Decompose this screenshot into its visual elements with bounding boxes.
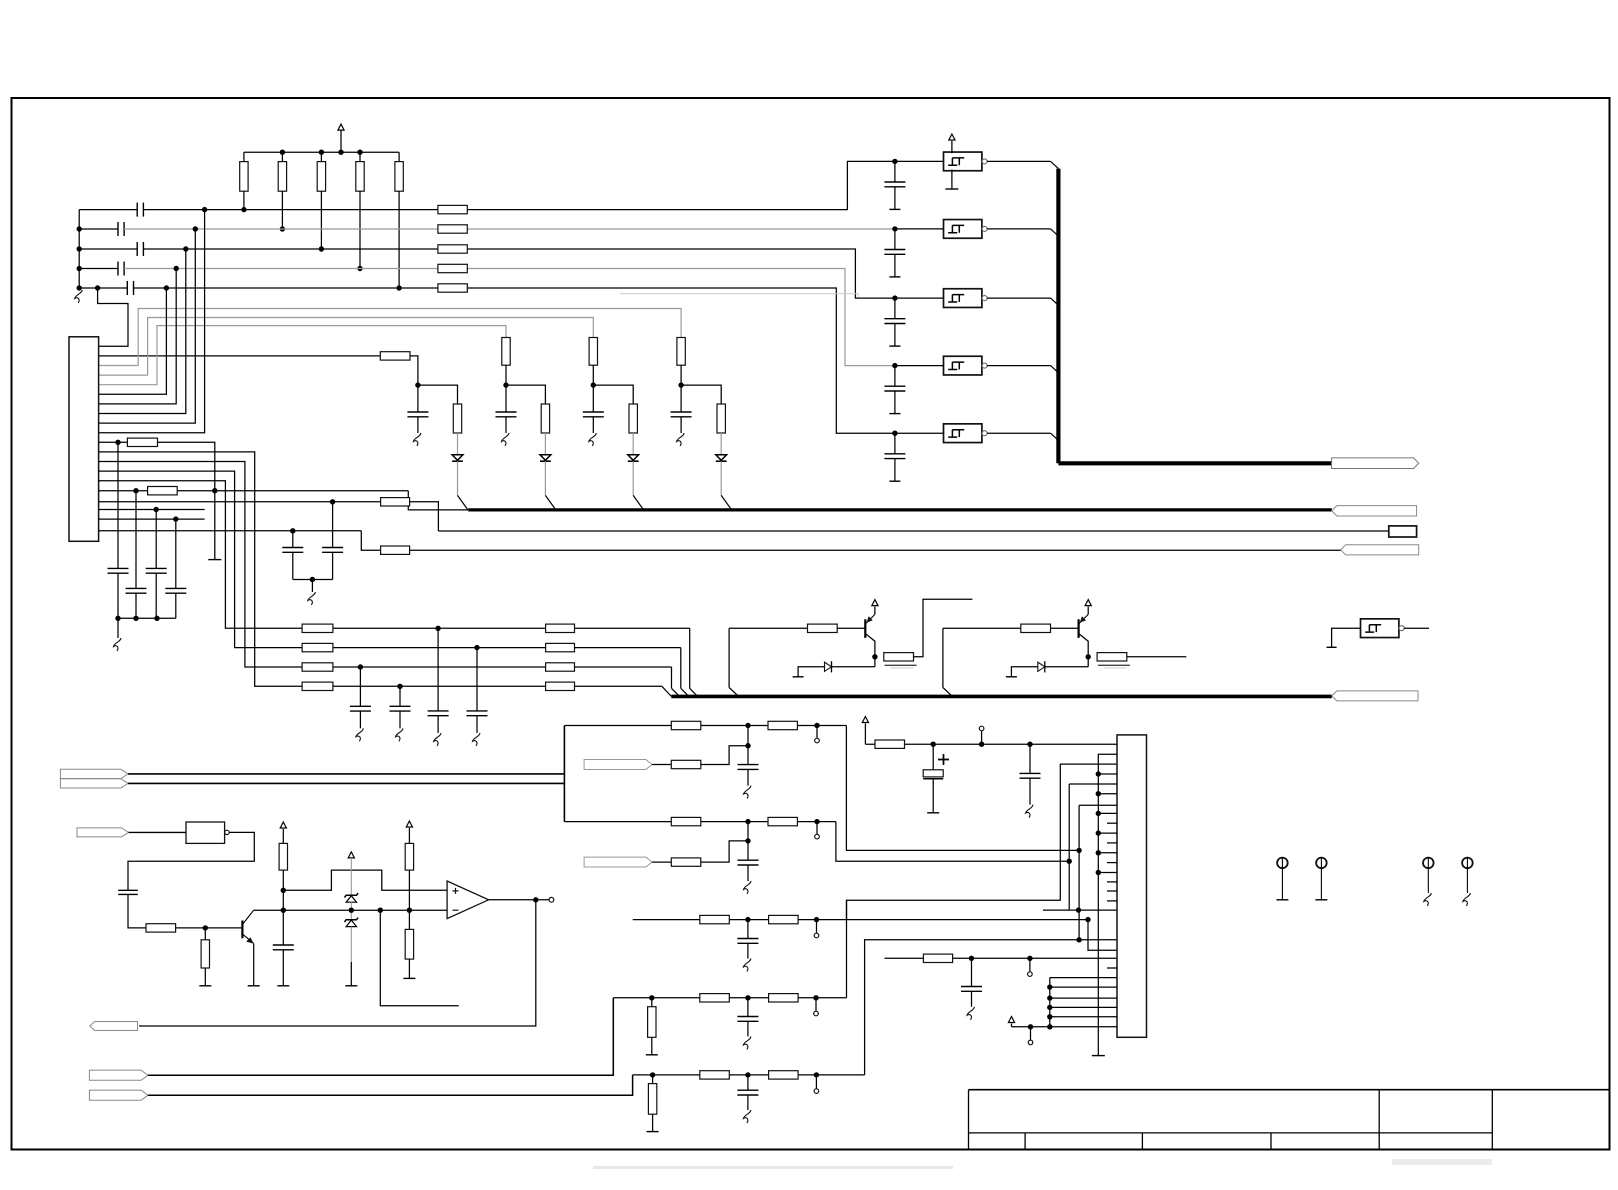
wire minus line [351, 909, 447, 911]
net label box [1389, 526, 1417, 537]
capacitor CS5 schmitt input [894, 433, 896, 454]
wire label line long [438, 530, 1388, 532]
wire branch4 to diode column [681, 385, 721, 404]
wire J2 group top [1050, 977, 1117, 979]
node branch3 [591, 382, 596, 387]
capacitor CR3 row3 [359, 667, 361, 706]
bus connector arrow right mid [1332, 506, 1417, 516]
resistor RA2 [768, 721, 797, 729]
bus entry branch4 [721, 495, 731, 510]
resistor RD3 column [629, 404, 637, 433]
wire J2 bottom rail [1011, 1024, 1013, 1027]
wire power rail [865, 743, 1117, 745]
wire J2 gnd stub [1098, 812, 1117, 814]
wire IN2a to rowD [148, 998, 613, 1075]
capacitor CC2 column [135, 491, 137, 589]
node line2 drop junction [193, 226, 198, 231]
diode DQ1 [825, 662, 832, 671]
node line3 drop junction [183, 246, 188, 251]
wire pin14 to row1 [99, 481, 303, 629]
ground bar CS2 [889, 276, 900, 278]
wire diode2 to bus [544, 461, 546, 495]
wire J2 stub g [1107, 900, 1117, 902]
title block [969, 1089, 1610, 1091]
wire pin5 up to line5 [99, 288, 167, 394]
wire row3 drop [671, 667, 673, 688]
wire schmitt3 input [895, 297, 944, 299]
wire J2 gnd stub [1098, 793, 1117, 795]
bus entry schmitt3 [1051, 298, 1059, 305]
wire RO1 to base node [176, 927, 243, 929]
node rail elcap [931, 742, 936, 747]
wire rowA main [564, 725, 846, 727]
wire row1 mid [333, 627, 546, 629]
ground bar RE1e [647, 1131, 659, 1133]
wire pin805 [1079, 804, 1117, 806]
resistor RB4 branch4 vertical [677, 338, 685, 366]
diode D4 [716, 455, 727, 461]
capacitor CR1 row1 [437, 628, 439, 711]
bus connector arrow lower right [1332, 691, 1418, 701]
wire Q2 collector [1079, 634, 1089, 657]
node rowC a [745, 917, 750, 922]
schmitt trigger U1 [944, 152, 982, 171]
resistor RD3d [769, 994, 799, 1002]
wire J2 stub b [1107, 842, 1117, 844]
node zener minus line [349, 908, 354, 913]
schmitt trigger U4 [944, 356, 982, 375]
wire CO1 to resistor [128, 894, 146, 928]
wire pin11 to row4 [99, 452, 303, 686]
buffer box U7 [186, 822, 225, 843]
wire line3 left segment [79, 248, 137, 250]
wire pin13 to row2 [99, 471, 303, 647]
wire J2 group pin [1050, 997, 1117, 999]
node pin18 [173, 516, 178, 521]
wire line5 left segment [79, 287, 127, 289]
wire J2 group vertical [1049, 978, 1051, 1027]
wire IN2b to rowE [148, 1075, 633, 1095]
ground CB1b [744, 881, 752, 894]
resistor RP5 pull-up [398, 152, 400, 161]
wire J2 group pin [1050, 1006, 1117, 1008]
wire pin19 jog [361, 531, 380, 550]
resistor RO1 [146, 924, 176, 932]
wire J2 gnd stub [1098, 753, 1117, 755]
node schmitt3 input [892, 295, 897, 300]
ground rail left of bus lines [78, 210, 80, 288]
terminal subrow [1029, 958, 1031, 971]
wire pin16 long [99, 501, 381, 503]
test point TP3 [1423, 858, 1434, 869]
capacitor CS1 schmitt input [894, 161, 896, 182]
wire RO4 down [408, 870, 410, 929]
wire schmitt1 output [987, 160, 1051, 162]
transistor Q3 NPN [241, 921, 243, 939]
resistor RL4 pin19 [381, 546, 410, 554]
capacitor CC1c [747, 920, 749, 939]
net arrow rowB gray [584, 857, 652, 867]
capacitor CL5 series [126, 281, 128, 295]
node op-amp output [533, 897, 538, 902]
power symbol RO4 [406, 821, 412, 827]
schmitt trigger U3 [944, 289, 982, 308]
resistor RB1 branch1 [380, 352, 410, 360]
wire diode3 to bus [632, 461, 634, 495]
wire Q2 feed vertical [942, 628, 944, 687]
wire pin9 up to line1 [99, 210, 205, 433]
wire schmitt5 input [895, 432, 944, 434]
resistor RB2 branch2 vertical [502, 338, 510, 366]
wire rowC V4 [1088, 920, 1117, 951]
ground branch4 [677, 433, 685, 446]
diode D2 [540, 455, 551, 461]
wire minus stub down [380, 910, 459, 1006]
resistor RL3 pin16 [381, 498, 410, 506]
node J2 b1 [1028, 1024, 1033, 1029]
resistor RPW [875, 740, 905, 748]
ground cap rail [117, 618, 119, 638]
capacitor CD1d [747, 998, 749, 1017]
wire row4 tail [575, 685, 662, 687]
wire pull-up top rail [244, 151, 399, 153]
node line1 pull-up junction [241, 207, 246, 212]
node Q3 base [203, 925, 208, 930]
wire schmitt4 input [895, 365, 944, 367]
wire rowA sub [747, 726, 749, 765]
node Q2 collector [1086, 654, 1091, 659]
wire Q1 feed vertical [728, 628, 730, 687]
capacitor CP2 [332, 502, 334, 548]
wire pin6 up to line4 [99, 269, 177, 404]
schmitt trigger U6 [1361, 619, 1399, 638]
node rowE res [650, 1072, 655, 1077]
wire column4 to diode [720, 433, 722, 455]
wire pin0 to line5 [98, 288, 128, 346]
node top rail junction [338, 150, 343, 155]
wire U7 out to cap [128, 832, 254, 890]
end bar stub [208, 559, 221, 561]
node line2 pull-up junction [280, 226, 285, 231]
node minus b [407, 908, 412, 913]
wire gray2 to RB3 [652, 861, 671, 863]
ground bar CS3 [889, 345, 900, 347]
resistor RD1d pulldown [648, 1007, 656, 1038]
wire plus input jog [283, 870, 447, 890]
wire IN1a to rowA [128, 726, 564, 774]
connector J1 left [69, 337, 99, 542]
capacitor CO1 [118, 889, 138, 891]
node pin15 a [133, 488, 138, 493]
power symbol VCC top [338, 124, 344, 130]
node collector junction [281, 908, 286, 913]
wire Q2 base line [943, 627, 1021, 629]
schmitt trigger U2 [944, 220, 982, 239]
ground CS1s [967, 1007, 975, 1020]
wire branch3 resistor to node [592, 365, 594, 385]
wire mid drop to rowD [846, 900, 848, 998]
wire J2 group pin [1050, 986, 1117, 988]
ground bar J2 rail [1092, 1055, 1105, 1057]
node J2 gnd pin [1096, 791, 1101, 796]
terminal rowE [815, 1075, 817, 1089]
wire Q3 collector to minus line [254, 909, 352, 911]
wire J2 group pin [1050, 1016, 1117, 1018]
wire S6 input L [1332, 628, 1361, 647]
resistor RS2 series line2 [438, 225, 467, 233]
terminal rowC [816, 920, 818, 933]
wire pin3 to branch3 [99, 318, 594, 376]
node rail term [979, 742, 984, 747]
wire pin7 up to line3 [99, 249, 186, 414]
wire J2 stub c [1107, 890, 1117, 892]
wire Q1 collector [865, 634, 875, 657]
transistor Q2 PNP [1077, 619, 1079, 638]
faint artifact a [593, 1166, 953, 1169]
ground branch3 [589, 433, 597, 446]
wire Q2 collector to diode [1087, 657, 1089, 667]
bus entry branch3 [633, 495, 643, 510]
resistor RC2 collector [1097, 653, 1127, 661]
capacitor CB4 branch4 [680, 385, 682, 412]
wire line5 to schmitt5 [134, 288, 895, 433]
capacitor CP1 [292, 531, 294, 548]
node top rail junction [280, 150, 285, 155]
terminal rowA [816, 726, 818, 738]
node branch1 [415, 382, 420, 387]
ground bar S6 input [1327, 646, 1337, 648]
wire column2 to diode [544, 433, 546, 455]
wire Q2 output [1127, 656, 1187, 658]
wire RB3 up to sub [701, 841, 748, 862]
node line1 drop junction [202, 207, 207, 212]
wire line1 left segment [79, 209, 137, 211]
wire J2 gnd stub [1098, 872, 1117, 874]
wire pin18 stub [99, 518, 205, 520]
wire branch2 resistor to node [505, 365, 507, 385]
resistor RP4 pull-up [359, 152, 361, 161]
terminal circle op-amp out [549, 897, 554, 902]
wire line4 to schmitt4 [124, 269, 895, 366]
ground branch2 [502, 433, 510, 446]
wire branch4 resistor to node [680, 365, 682, 385]
wire faint echo line3 [620, 294, 858, 298]
ground bar RO2 [199, 985, 211, 987]
wire DQ1 cathode [832, 666, 875, 668]
resistor RL2 pin15 [148, 487, 178, 495]
bus entry branch1 [458, 495, 468, 510]
wire row3 mid [333, 666, 546, 668]
ground row1 [434, 733, 442, 746]
end bar RO5 [403, 977, 415, 979]
wire Q2 base [1051, 627, 1079, 629]
wire row1 tail [575, 627, 690, 629]
node pin15 b [212, 488, 217, 493]
wire row1 drop [689, 628, 691, 688]
node subrow b [1027, 956, 1032, 961]
wire Q1 output up [914, 599, 973, 657]
node J2 gnd pin [1096, 771, 1101, 776]
wire rail stem [864, 724, 866, 745]
node rowC b [814, 917, 819, 922]
resistor RR2a row2 [302, 643, 333, 651]
label underline Q1 [885, 664, 917, 666]
node line3 pull-up junction [319, 246, 324, 251]
resistor RC1c [700, 915, 730, 923]
bus thick lower horizontal [671, 695, 1332, 699]
resistor RE2e [700, 1071, 730, 1079]
ground CA1 [744, 786, 752, 799]
node minus a [378, 908, 383, 913]
wire RA3 up to sub [701, 746, 748, 765]
wire pin12 to row3 [99, 462, 303, 668]
terminal rowD [815, 998, 817, 1011]
bus entry branch2 [545, 495, 555, 510]
resistor RE3e [769, 1071, 799, 1079]
node rowE a [745, 1072, 750, 1077]
resistor RD2d [700, 994, 730, 1002]
resistor RS4 series line4 [438, 264, 467, 272]
bus entry row2 [681, 688, 689, 696]
node J2 gnd pin [1096, 830, 1101, 835]
wire S6 output [1404, 627, 1429, 629]
wire pin19 long [99, 530, 362, 532]
wire zener gnd b [350, 962, 352, 986]
wire rowB main [564, 821, 836, 823]
node rowB b [814, 819, 819, 824]
wire cap column rail [118, 617, 176, 619]
wire RO5 gnd [408, 959, 410, 978]
resistor RS5 series line5 [438, 284, 467, 292]
net arrow rowA gray [584, 760, 652, 770]
resistor RA1 [671, 721, 701, 729]
wire DQ2 cathode [1045, 666, 1088, 668]
ground CD1d [743, 1037, 751, 1050]
wire cap pair rail [293, 579, 333, 581]
wire J2 stub f [1107, 881, 1117, 883]
wire pin10 resistor line [99, 441, 128, 443]
wire subrow main [885, 957, 1118, 959]
wire pin910 [1069, 909, 1117, 911]
node cap pair [310, 577, 315, 582]
capacitor CS4 schmitt input [894, 366, 896, 387]
test point TP1 [1277, 858, 1288, 869]
resistor RO4 [405, 843, 413, 870]
resistor RE1e pulldown [648, 1084, 656, 1115]
test point TP4 [1462, 858, 1473, 869]
wire line2 left segment [79, 228, 118, 230]
wire schmitt2 output [987, 228, 1051, 230]
capacitor CL2 series [117, 222, 119, 236]
wire pin910 left stub [1043, 909, 1069, 911]
wire rowE tail up [865, 940, 1080, 1075]
ground CC1c [743, 959, 751, 972]
wire row2 drop [680, 648, 682, 689]
wire branch1 to diode column [418, 385, 458, 404]
ground bar zener [345, 985, 357, 987]
node rowE b [814, 1072, 819, 1077]
wire row2 tail [575, 647, 681, 649]
connector arrow IN1 left pair a [60, 769, 128, 778]
resistor RR3a row3 [302, 663, 333, 671]
wire pin4 to branch2 [99, 326, 506, 385]
resistor RO3 [279, 843, 287, 870]
ground rail J2 [1097, 754, 1099, 1055]
node rowD res [649, 995, 654, 1000]
node J2 group pin [1047, 984, 1052, 989]
zener diode Z2 [345, 918, 359, 922]
ground bar DQ1 [793, 676, 804, 678]
wire column1 to diode [457, 433, 459, 455]
node pin16 [330, 499, 335, 504]
resistor RR1a row1 [302, 624, 333, 632]
wire IN1 vertical bridge [563, 774, 565, 784]
ground cap pair [311, 580, 313, 593]
ground row4 [396, 728, 404, 741]
ground CE1e [743, 1110, 751, 1123]
ground branch1 [413, 433, 421, 446]
wire J2 gnd stub [1098, 832, 1117, 834]
wire Q1 emitter [874, 607, 876, 615]
resistor RS1 series line1 [438, 205, 467, 213]
node rail a [115, 616, 120, 621]
wire rowC up branch [847, 764, 1118, 920]
terminal J2 bottom [1030, 1027, 1032, 1040]
bus entry schmitt2 [1051, 229, 1059, 236]
wire PC2 to box [129, 831, 187, 833]
wire row4 mid [333, 685, 546, 687]
resistor RP2 pull-up [281, 152, 283, 161]
wire Q1 base [837, 627, 865, 629]
capacitor CE1e [747, 1075, 749, 1090]
wire bus feed from pin490 [408, 491, 468, 510]
wire schmitt1 input [895, 160, 944, 162]
wire rowB tail [836, 822, 1069, 862]
wire rowE main [633, 1074, 865, 1076]
node rowE-rowA join [1076, 937, 1081, 942]
wire pin939 to connector [1079, 939, 1117, 941]
power symbol op-amp left [280, 822, 286, 828]
node J2 gnd pin [1096, 811, 1101, 816]
wire diode1 to bus [457, 461, 459, 495]
node plus feed [281, 888, 286, 893]
node rowB a [745, 819, 750, 824]
resistor RC1 collector [884, 653, 914, 661]
node row1 [435, 626, 440, 631]
wire pin10 to stub [158, 442, 215, 559]
capacitor CA1 [738, 764, 759, 766]
resistor RP1 pull-up [243, 152, 245, 161]
capacitor CB2 branch2 [505, 385, 507, 412]
node rowA V1079 join [1076, 848, 1081, 853]
node schmitt2 input [892, 226, 897, 231]
node rowA b [814, 723, 819, 728]
bus thick schmitt vertical [1056, 169, 1060, 464]
transistor Q1 PNP [864, 619, 866, 638]
wire rowB sub [747, 822, 749, 861]
wire to connector arrow A3 [410, 549, 1341, 551]
label underline Q2 [1098, 664, 1130, 666]
zener diode Z1 [345, 893, 359, 897]
wire Q1 base line [729, 627, 807, 629]
ground bar CS1 [889, 208, 900, 210]
wire rowD main [613, 997, 846, 999]
schmitt trigger U5 [944, 424, 982, 443]
wire J2 gnd stub [1098, 773, 1117, 775]
electrolytic cap CE+ [932, 744, 934, 770]
node Q1 collector [872, 654, 877, 659]
capacitor CL1 series [136, 203, 138, 217]
